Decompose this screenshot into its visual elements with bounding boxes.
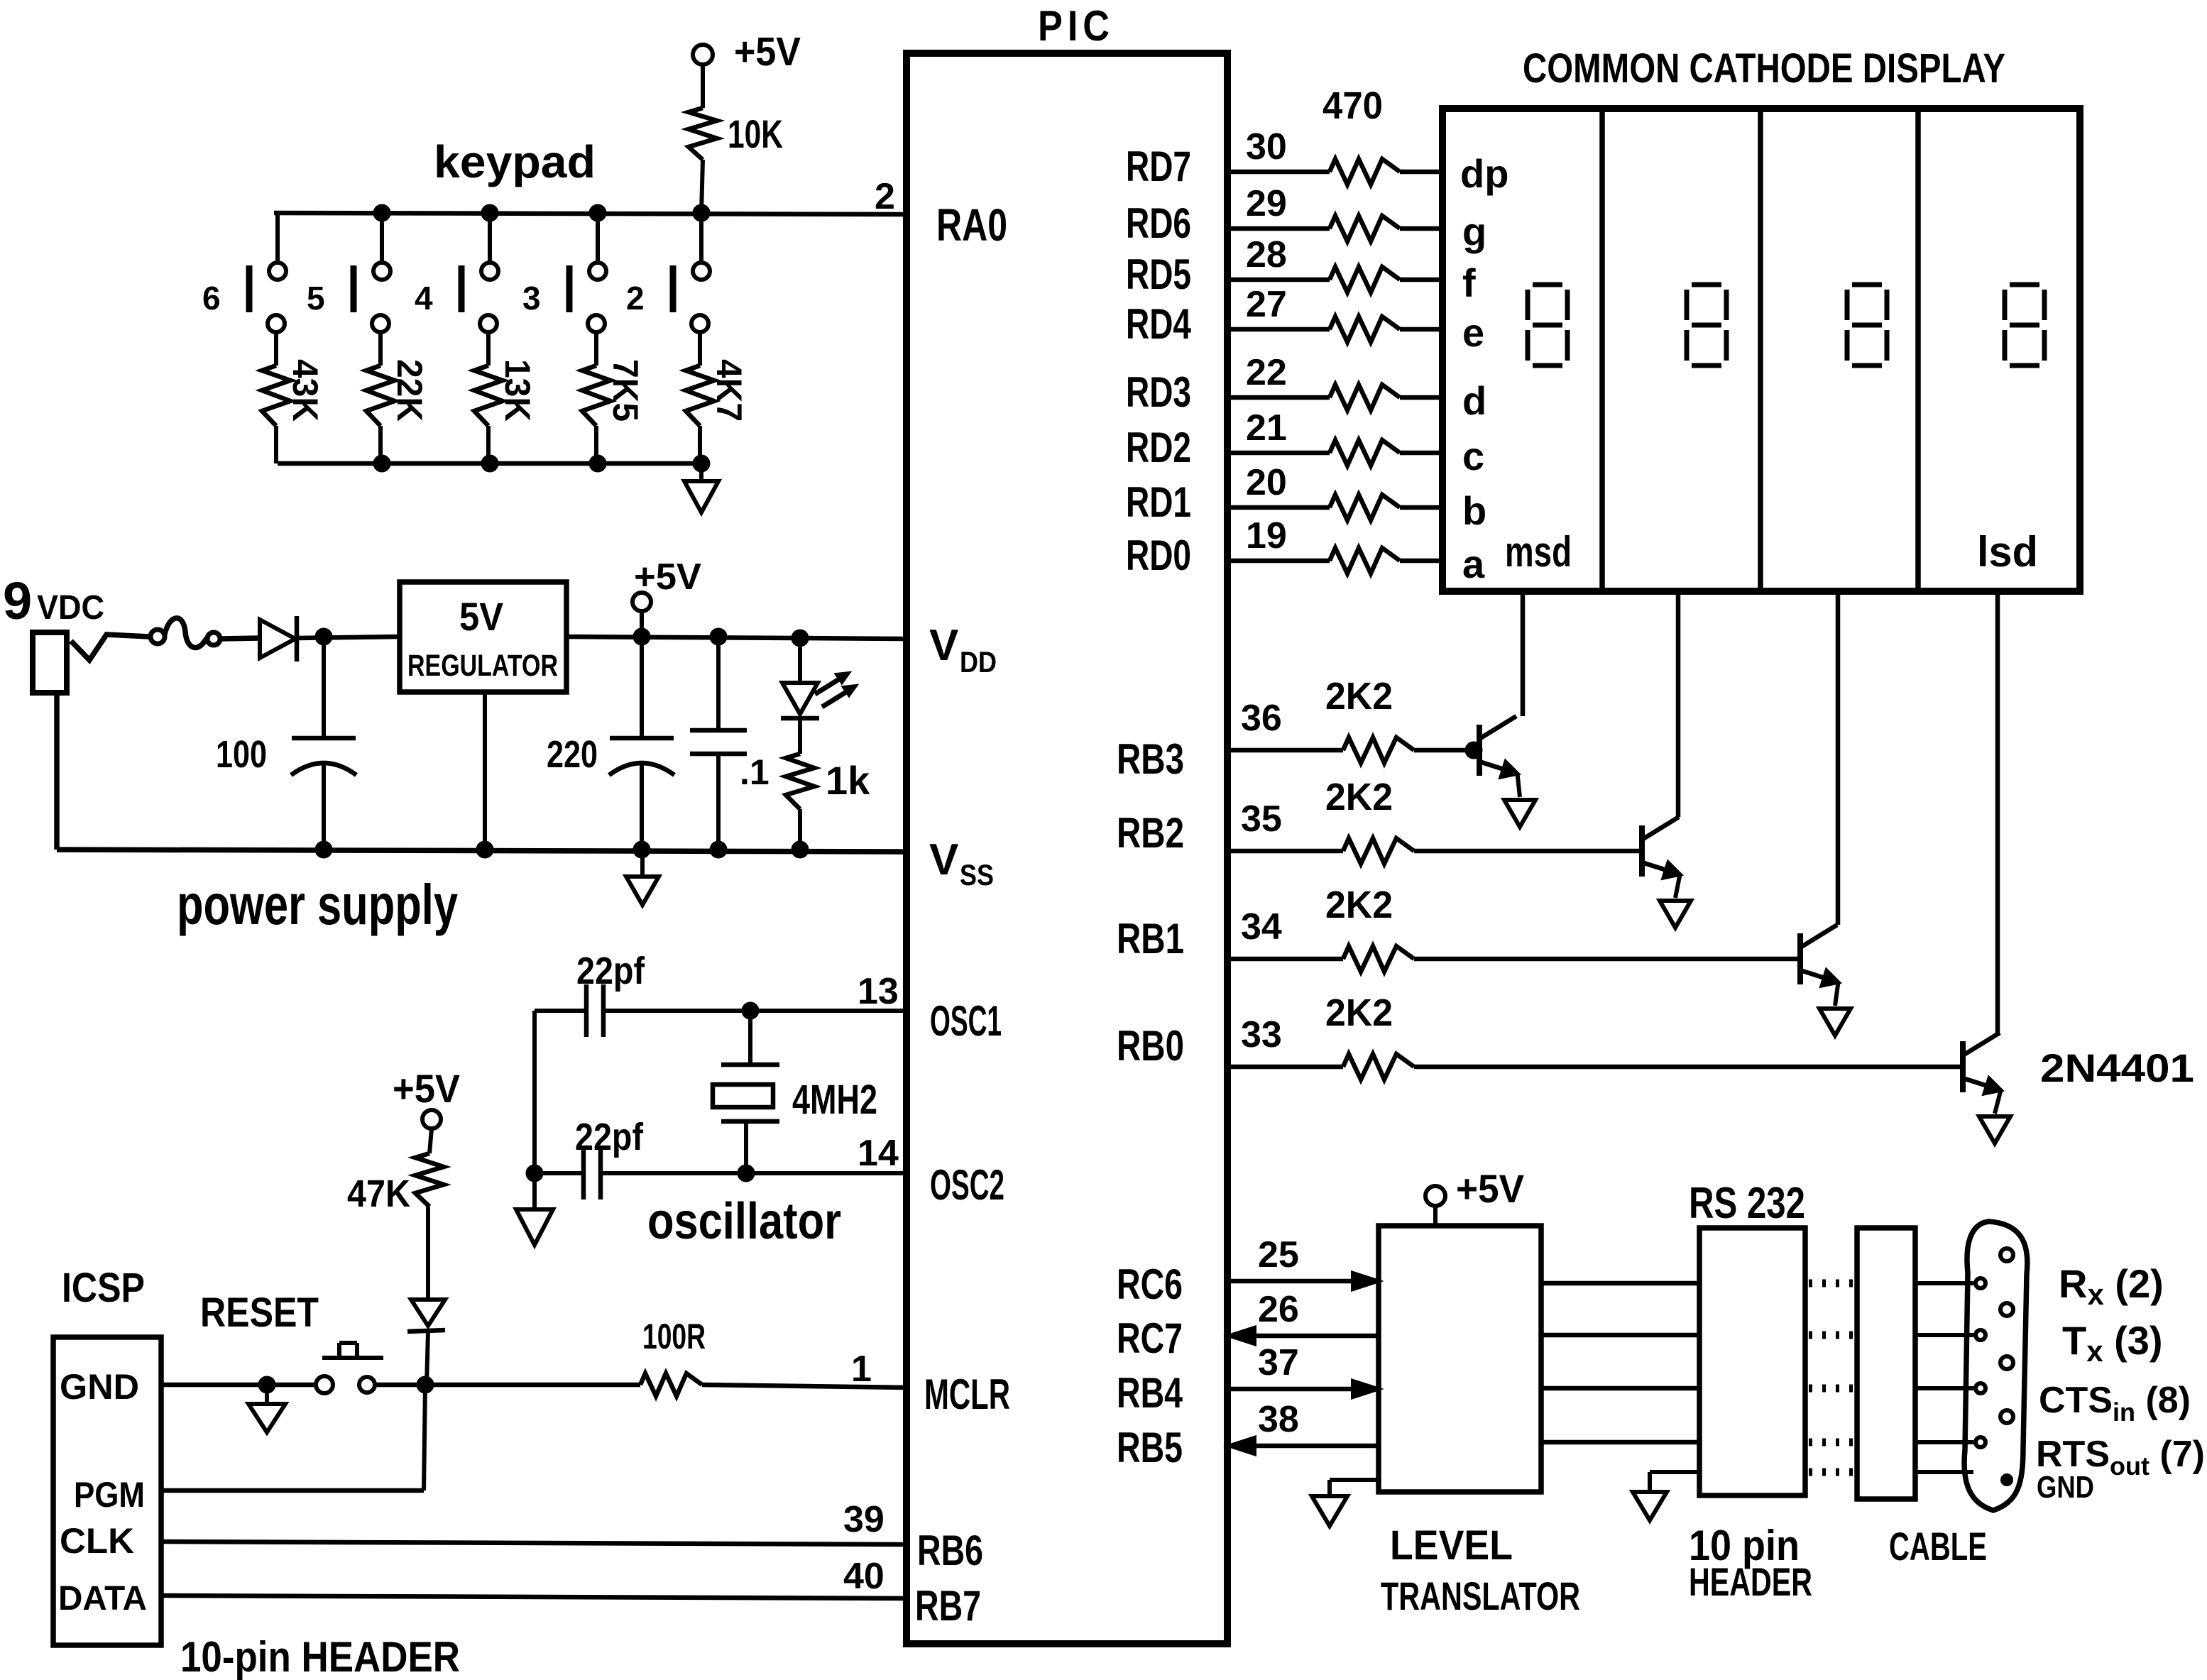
svg-text:+5V: +5V xyxy=(1456,1166,1524,1211)
svg-text:6: 6 xyxy=(202,280,221,317)
svg-text:43K: 43K xyxy=(285,359,325,422)
svg-text:e: e xyxy=(1462,310,1484,355)
svg-text:27: 27 xyxy=(1246,284,1287,325)
svg-text:RB4: RB4 xyxy=(1117,1369,1183,1417)
svg-text:HEADER: HEADER xyxy=(1689,1559,1812,1604)
svg-text:28: 28 xyxy=(1246,234,1287,275)
svg-text:RD0: RD0 xyxy=(1126,532,1191,579)
svg-text:37: 37 xyxy=(1258,1342,1299,1383)
svg-text:oscillator: oscillator xyxy=(647,1193,841,1250)
svg-text:RD1: RD1 xyxy=(1126,478,1191,526)
svg-text:OSC2: OSC2 xyxy=(930,1161,1004,1209)
svg-text:RD7: RD7 xyxy=(1126,143,1191,190)
svg-text:470: 470 xyxy=(1322,84,1383,127)
svg-text:RB3: RB3 xyxy=(1117,735,1184,783)
svg-text:Rx (2): Rx (2) xyxy=(2059,1261,2164,1311)
svg-text:power supply: power supply xyxy=(177,873,458,936)
svg-text:+5V: +5V xyxy=(393,1066,460,1111)
svg-text:GND: GND xyxy=(2037,1470,2094,1505)
svg-text:38: 38 xyxy=(1258,1399,1299,1440)
svg-text:LEVEL: LEVEL xyxy=(1390,1522,1513,1569)
svg-text:1: 1 xyxy=(851,1349,872,1390)
svg-text:4MH2: 4MH2 xyxy=(792,1077,877,1123)
svg-text:RD5: RD5 xyxy=(1126,251,1191,298)
svg-text:+5V: +5V xyxy=(734,29,801,75)
svg-text:13K: 13K xyxy=(498,359,537,422)
svg-text:39: 39 xyxy=(843,1499,885,1540)
svg-text:2K2: 2K2 xyxy=(1325,884,1393,926)
svg-text:RD4: RD4 xyxy=(1126,300,1191,348)
svg-text:TRANSLATOR: TRANSLATOR xyxy=(1381,1574,1580,1618)
svg-text:47K: 47K xyxy=(347,1173,410,1215)
svg-text:2K2: 2K2 xyxy=(1325,675,1393,718)
svg-text:msd: msd xyxy=(1505,528,1572,576)
svg-text:REGULATOR: REGULATOR xyxy=(407,649,558,683)
svg-text:PGM: PGM xyxy=(74,1475,145,1515)
svg-text:RD2: RD2 xyxy=(1126,424,1191,471)
svg-text:2K2: 2K2 xyxy=(1325,992,1393,1034)
svg-text:RC7: RC7 xyxy=(1117,1314,1183,1362)
svg-text:26: 26 xyxy=(1258,1289,1299,1330)
svg-text:GND: GND xyxy=(60,1367,139,1407)
svg-text:20: 20 xyxy=(1246,462,1287,503)
svg-text:9: 9 xyxy=(3,571,32,630)
svg-text:Tx (3): Tx (3) xyxy=(2062,1318,2163,1368)
svg-text:RD3: RD3 xyxy=(1126,368,1191,416)
svg-text:25: 25 xyxy=(1258,1234,1299,1275)
svg-text:PIC: PIC xyxy=(1038,2,1115,50)
svg-text:4: 4 xyxy=(415,280,433,317)
svg-text:f: f xyxy=(1462,260,1476,305)
svg-text:34: 34 xyxy=(1241,906,1282,948)
svg-text:33: 33 xyxy=(1241,1014,1282,1055)
svg-text:2: 2 xyxy=(875,176,895,217)
svg-text:keypad: keypad xyxy=(434,136,596,187)
svg-text:c: c xyxy=(1462,434,1484,478)
svg-text:+5V: +5V xyxy=(634,556,701,598)
svg-text:RA0: RA0 xyxy=(936,199,1007,251)
svg-text:10K: 10K xyxy=(728,111,783,156)
svg-text:a: a xyxy=(1462,542,1485,586)
svg-text:g: g xyxy=(1462,209,1486,254)
svg-text:OSC1: OSC1 xyxy=(930,997,1002,1045)
svg-text:b: b xyxy=(1462,488,1486,533)
svg-text:VDC: VDC xyxy=(37,589,104,627)
svg-text:7K5: 7K5 xyxy=(606,359,645,422)
svg-text:V: V xyxy=(929,621,958,670)
svg-text:.1: .1 xyxy=(740,752,770,792)
svg-text:14: 14 xyxy=(858,1133,899,1174)
svg-text:CABLE: CABLE xyxy=(1889,1524,1987,1569)
svg-text:5: 5 xyxy=(307,280,325,317)
svg-text:21: 21 xyxy=(1246,407,1287,449)
svg-text:3: 3 xyxy=(522,280,541,317)
svg-text:2N4401: 2N4401 xyxy=(2040,1045,2194,1090)
svg-text:100R: 100R xyxy=(642,1317,706,1356)
svg-text:22pf: 22pf xyxy=(576,950,645,992)
svg-text:RB2: RB2 xyxy=(1117,809,1184,857)
svg-text:30: 30 xyxy=(1246,126,1287,168)
svg-text:RB6: RB6 xyxy=(917,1527,983,1574)
svg-text:MCLR: MCLR xyxy=(924,1371,1010,1418)
svg-text:RB0: RB0 xyxy=(1117,1022,1184,1070)
svg-text:36: 36 xyxy=(1241,698,1282,739)
svg-text:ICSP: ICSP xyxy=(62,1265,145,1311)
svg-text:19: 19 xyxy=(1246,515,1287,556)
svg-text:lsd: lsd xyxy=(1977,528,2038,576)
svg-text:10-pin HEADER: 10-pin HEADER xyxy=(180,1633,460,1680)
svg-text:d: d xyxy=(1462,378,1486,423)
svg-text:2: 2 xyxy=(626,280,645,317)
svg-text:35: 35 xyxy=(1241,798,1282,840)
svg-text:RB5: RB5 xyxy=(1117,1424,1183,1471)
svg-text:22: 22 xyxy=(1246,352,1287,393)
svg-text:RESET: RESET xyxy=(200,1290,319,1336)
svg-text:dp: dp xyxy=(1460,151,1508,196)
svg-text:SS: SS xyxy=(960,858,994,891)
svg-text:22pf: 22pf xyxy=(575,1116,644,1158)
svg-text:CLK: CLK xyxy=(60,1521,134,1561)
svg-text:RB7: RB7 xyxy=(915,1582,981,1630)
svg-text:V: V xyxy=(929,835,958,884)
svg-text:100: 100 xyxy=(216,733,267,776)
svg-text:5V: 5V xyxy=(459,594,503,639)
svg-text:RD6: RD6 xyxy=(1126,199,1191,247)
svg-text:40: 40 xyxy=(843,1556,885,1597)
svg-text:1k: 1k xyxy=(826,758,870,803)
svg-text:29: 29 xyxy=(1246,183,1287,224)
svg-text:22K: 22K xyxy=(390,359,429,422)
svg-text:13: 13 xyxy=(858,971,899,1012)
svg-text:2K2: 2K2 xyxy=(1325,776,1393,818)
svg-text:4K7: 4K7 xyxy=(709,359,749,422)
svg-text:RS 232: RS 232 xyxy=(1689,1179,1805,1228)
svg-text:DD: DD xyxy=(960,645,997,679)
svg-text:DATA: DATA xyxy=(58,1580,147,1618)
svg-text:220: 220 xyxy=(547,733,598,776)
svg-text:RC6: RC6 xyxy=(1117,1261,1183,1308)
svg-text:RB1: RB1 xyxy=(1117,915,1184,962)
svg-text:COMMON CATHODE DISPLAY: COMMON CATHODE DISPLAY xyxy=(1523,45,2005,92)
